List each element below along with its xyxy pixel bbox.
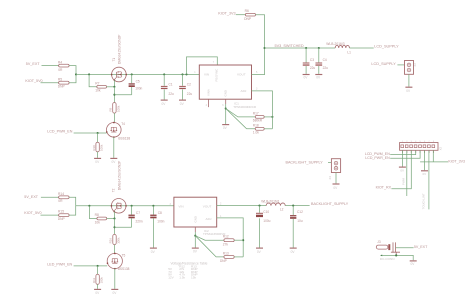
svg-text:C2: C2: [187, 82, 191, 86]
wire to C3: [305, 48, 307, 62]
svg-text:KIOT_RX: KIOT_RX: [376, 185, 392, 189]
svg-text:0V: 0V: [333, 186, 338, 190]
wire header pin7 TOUCH_INT: [428, 150, 430, 209]
svg-text:3: 3: [170, 203, 172, 206]
svg-text:X4: X4: [328, 176, 332, 180]
svg-text:7: 7: [213, 61, 215, 64]
svg-text:J3: J3: [377, 240, 381, 244]
svg-text:L1: L1: [347, 50, 351, 54]
svg-text:BACKLIGHT_SUPPLY: BACKLIGHT_SUPPLY: [286, 160, 324, 164]
svg-text:0V: 0V: [113, 291, 118, 295]
ground header pin1: [399, 166, 406, 168]
wire L1 to LCD_SUPPLY: [349, 47, 373, 49]
capacitor C3: [303, 63, 310, 64]
svg-text:1.0k: 1.0k: [253, 130, 259, 134]
capacitor C10: [256, 213, 263, 214]
ground C3: [303, 74, 310, 76]
resistor R14: [59, 196, 70, 199]
ground X2: [405, 86, 412, 88]
capacitor C2: [179, 86, 186, 87]
svg-text:C10: C10: [263, 210, 269, 214]
svg-text:VOUT: VOUT: [237, 72, 246, 76]
svg-text:100n: 100n: [157, 220, 164, 224]
capacitor C1: [161, 86, 168, 87]
resistor R12: [224, 239, 234, 242]
wire header pin1 to ground: [401, 150, 403, 166]
svg-text:0V: 0V: [112, 160, 117, 164]
wire R15 to merge: [69, 206, 76, 215]
svg-text:BSS138: BSS138: [118, 136, 130, 140]
wire to C5: [131, 74, 133, 83]
wire label to connector X2: [397, 64, 404, 66]
svg-text:LCD_SUPPLY: LCD_SUPPLY: [371, 62, 396, 66]
junction R8 tap: [88, 205, 90, 207]
junction IC2 GND / feedback: [194, 235, 196, 237]
wire feedback diag to R17: [226, 109, 256, 117]
svg-text:0V: 0V: [423, 172, 427, 176]
svg-text:VIN: VIN: [204, 72, 209, 76]
svg-text:4: 4: [206, 104, 208, 107]
ground C1: [161, 99, 168, 101]
op-amp IC2 TPS61165 box: [174, 197, 217, 227]
wire IC1 GND node: [225, 104, 227, 124]
wire feedback diag to R18: [226, 109, 256, 129]
resistor R5: [59, 81, 70, 84]
wire R5 to merge: [69, 74, 76, 82]
wire C7 return: [115, 226, 132, 228]
svg-text:C7: C7: [136, 211, 140, 215]
wire IC2 ADJ feedback: [217, 218, 244, 257]
svg-text:1: 1: [220, 215, 222, 218]
wire C1 to ground: [163, 89, 165, 99]
wire J3 tip to 5V_EXT: [396, 247, 414, 249]
junction IC1 GND / feedback: [225, 107, 227, 109]
svg-text:R15: R15: [58, 210, 64, 214]
resistor R7: [97, 85, 107, 88]
wire header pin5 LCD_PWR_EN: [390, 150, 420, 158]
ground J3: [410, 260, 417, 262]
svg-text:DNP: DNP: [58, 84, 66, 88]
transistor T1: [112, 67, 127, 82]
capacitor C5: [129, 83, 135, 84]
wire feedback diag to R13: [195, 236, 224, 257]
wire X4 pin2 to ground: [335, 173, 337, 184]
junction EN loop: [185, 73, 187, 75]
svg-text:VINA: VINA: [207, 89, 211, 96]
junction C7 top: [131, 205, 133, 207]
svg-text:TOUCH_INT: TOUCH_INT: [422, 193, 426, 209]
svg-text:R7: R7: [95, 81, 99, 85]
junction R17 / ADJ vertical: [271, 116, 273, 118]
wire main 5V rail to IC1 VIN: [76, 73, 199, 75]
svg-text:0V: 0V: [257, 250, 262, 254]
svg-text:ADJ: ADJ: [241, 89, 247, 93]
op-amp IC1 TPS63000 box: [199, 65, 251, 99]
svg-text:6: 6: [222, 104, 224, 107]
junction T2 gate / R8: [113, 217, 115, 219]
wire header pin8 KIOT_3V3: [432, 150, 434, 162]
wire C7 bottom: [131, 218, 133, 227]
svg-text:12V: 12V: [168, 275, 174, 279]
svg-text:27k: 27k: [223, 242, 229, 246]
wire C5 return: [114, 94, 131, 96]
svg-text:T2: T2: [112, 188, 116, 192]
wire main rail to IC2 VIN: [76, 205, 174, 207]
wire IC1 ADJ feedback: [252, 91, 273, 129]
wire to C7: [131, 206, 133, 215]
svg-text:0R: 0R: [58, 199, 63, 203]
ground C8: [150, 247, 157, 249]
svg-text:C4: C4: [323, 58, 327, 62]
svg-text:100k: 100k: [99, 277, 103, 284]
wire R14 to merge: [69, 197, 76, 206]
svg-text:5V_EXT: 5V_EXT: [24, 195, 38, 199]
svg-text:10u: 10u: [297, 219, 303, 223]
wire to C8: [152, 206, 154, 215]
svg-text:0V: 0V: [406, 89, 411, 93]
svg-text:15k: 15k: [191, 275, 196, 279]
svg-text:X2: X2: [413, 63, 417, 67]
inductor L1: [335, 45, 349, 48]
junction gate / C7 return: [113, 226, 115, 228]
wire T4 source to ground: [113, 137, 115, 158]
wire 5V_EXT to R14: [41, 196, 59, 198]
wire down to R11: [97, 266, 99, 274]
svg-text:220n: 220n: [136, 220, 143, 224]
svg-text:0V: 0V: [316, 76, 321, 80]
junction C2 top: [181, 73, 183, 75]
transistor T2: [111, 199, 126, 214]
junction C3: [305, 47, 307, 49]
wire to C1: [163, 74, 165, 85]
junction rail / VOUT: [263, 47, 265, 49]
junction C1 top: [163, 73, 165, 75]
svg-text:100n: 100n: [135, 87, 142, 91]
wire down to R7: [89, 74, 97, 86]
junction C10: [258, 205, 260, 207]
svg-text:0V: 0V: [162, 102, 167, 106]
ground C2: [179, 99, 186, 101]
wire IC1 VOUT up to switched rail: [252, 48, 265, 75]
svg-text:KIOT_3V3: KIOT_3V3: [218, 12, 235, 16]
junction R10 tap: [97, 132, 99, 134]
transistor T5: [107, 253, 122, 268]
capacitor C8: [150, 215, 156, 216]
svg-text:1: 1: [194, 71, 196, 74]
svg-text:C8: C8: [158, 211, 162, 215]
resistor R4: [59, 64, 70, 67]
svg-text:0V: 0V: [95, 160, 100, 164]
wire X2 pin2 to ground: [408, 74, 410, 86]
ground R10: [94, 157, 101, 159]
wire to C4: [318, 48, 320, 62]
resistor R18: [255, 127, 264, 130]
ground header pin6: [421, 170, 428, 172]
svg-text:0V: 0V: [193, 250, 198, 254]
svg-text:LCD_PWR_EN: LCD_PWR_EN: [47, 130, 73, 134]
resistor R6: [245, 13, 255, 16]
svg-text:5V3_SWITCHED: 5V3_SWITCHED: [275, 44, 304, 48]
svg-text:DMG3415U/SON2P: DMG3415U/SON2P: [117, 34, 121, 64]
wire to C2: [182, 74, 184, 85]
svg-text:0V: 0V: [291, 250, 296, 254]
wire 5V_EXT to R4: [42, 65, 59, 67]
svg-text:DC-CONN: DC-CONN: [380, 257, 395, 261]
svg-text:L2: L2: [280, 207, 284, 211]
svg-text:R9: R9: [109, 107, 113, 111]
svg-text:BACKLIGHT_SUPPLY: BACKLIGHT_SUPPLY: [311, 202, 349, 206]
svg-text:BSS138: BSS138: [118, 267, 130, 271]
wire C8 to ground: [152, 218, 154, 247]
wire T1 gate: [113, 80, 115, 87]
svg-text:100k: 100k: [116, 105, 120, 112]
svg-text:KIOT_5V0: KIOT_5V0: [25, 79, 42, 83]
svg-text:KIOT_5V0: KIOT_5V0: [24, 211, 41, 215]
svg-text:C5: C5: [136, 80, 140, 84]
wire R8 to gate node: [107, 218, 115, 220]
wire R16 to T5 drain: [114, 245, 116, 254]
resistor R9: [113, 103, 116, 114]
svg-text:VOUT: VOUT: [203, 204, 212, 208]
wire R11 to ground: [97, 284, 99, 289]
resistor R16: [113, 234, 116, 244]
svg-text:DNP: DNP: [220, 259, 227, 263]
pin GND stub IC2: [194, 227, 196, 232]
wire R6 down to rail: [256, 15, 265, 48]
ground T5: [111, 288, 118, 290]
wire C4 to ground: [318, 66, 320, 74]
svg-text:T1: T1: [112, 58, 116, 62]
svg-text:3: 3: [256, 87, 258, 90]
header pin stubs: [401, 150, 403, 153]
wire R17 to vertical: [264, 116, 272, 118]
transistor T4: [107, 123, 122, 138]
resistor R11: [96, 274, 99, 284]
wire header pin2 PWM: [406, 150, 408, 196]
wire EN loop to IC1 top pin: [187, 57, 218, 75]
svg-text:VIN: VIN: [178, 204, 183, 208]
wire LED_PWR_EN to T5 gate: [74, 265, 108, 267]
svg-text:R4: R4: [58, 60, 62, 64]
svg-text:22u: 22u: [187, 92, 193, 96]
wire R7 to gate node: [107, 86, 115, 88]
svg-text:Voltage/Resistance Table: Voltage/Resistance Table: [171, 261, 208, 265]
svg-text:R14: R14: [58, 192, 64, 196]
svg-text:0V: 0V: [400, 168, 404, 172]
svg-text:WLB-2016/3: WLB-2016/3: [326, 42, 344, 46]
svg-text:0V: 0V: [180, 102, 185, 106]
connector X2 LCD_SUPPLY: [405, 61, 414, 75]
wire header pin4 LCD_PWM_EN: [390, 150, 416, 154]
svg-text:GND: GND: [224, 90, 228, 96]
capacitor C12: [290, 215, 296, 216]
junction R11 tap: [97, 265, 99, 267]
junction C4: [318, 47, 320, 49]
svg-text:R8: R8: [95, 213, 99, 217]
wire R18 to vertical: [264, 128, 272, 130]
wire LCD_PWR_EN to T4 gate: [74, 132, 107, 134]
connector X4 BACKLIGHT_SUPPLY: [331, 159, 340, 173]
capacitor C7: [128, 215, 134, 216]
ground IC2: [192, 247, 199, 249]
junction J3 sleeve: [395, 254, 397, 256]
svg-text:5V_EXT: 5V_EXT: [26, 62, 40, 66]
svg-text:C12: C12: [297, 210, 303, 214]
wire to C12: [292, 206, 294, 215]
wire feedback diag to R12: [195, 236, 224, 241]
wire header pin6 to ground: [424, 150, 426, 170]
inductor L2: [266, 203, 285, 206]
wire C12 to ground: [292, 219, 294, 248]
svg-text:GND: GND: [194, 216, 198, 222]
wire R13 to vertical: [234, 256, 243, 258]
wire down to R10: [97, 133, 99, 142]
svg-text:R10: R10: [92, 145, 96, 151]
wire J3 sleeve to ground: [381, 255, 414, 260]
wire R4 to merge: [69, 66, 76, 75]
svg-text:WLB-2016/1: WLB-2016/1: [261, 200, 279, 204]
wire header pin3 KIOT_RX: [391, 150, 411, 188]
svg-text:0V: 0V: [95, 291, 100, 295]
svg-text:R5: R5: [58, 77, 62, 81]
svg-text:0V: 0V: [151, 250, 156, 254]
wire IC2 VOUT to L2: [217, 205, 267, 207]
svg-text:10k: 10k: [95, 220, 101, 224]
svg-text:0V: 0V: [223, 126, 228, 130]
wire KIOT_3V3 to R6: [236, 14, 246, 16]
svg-text:0V: 0V: [304, 76, 309, 80]
svg-text:0R: 0R: [58, 68, 63, 72]
resistor R13: [224, 255, 234, 258]
capacitor C4: [315, 63, 322, 64]
ground IC1: [222, 124, 229, 126]
svg-text:22u: 22u: [323, 66, 329, 70]
wire KIOT_5V0 to R5: [41, 82, 59, 84]
svg-text:DNP: DNP: [58, 217, 66, 221]
connector X3 LCD header: [400, 143, 438, 151]
wire gate down: [113, 87, 115, 103]
svg-text:100u: 100u: [263, 219, 270, 223]
wire C3 to ground: [305, 66, 307, 74]
svg-text:R16: R16: [109, 238, 113, 244]
junction gate / C5 return: [113, 94, 115, 96]
resistor R15: [59, 214, 70, 217]
svg-text:DNP: DNP: [244, 17, 252, 21]
svg-text:100k: 100k: [116, 237, 120, 244]
wire R12 to vertical: [234, 239, 243, 241]
svg-text:10k: 10k: [95, 89, 101, 93]
junction C12: [292, 205, 294, 207]
resistor R10: [96, 142, 99, 152]
junction R12 / ADJ vertical: [242, 239, 244, 241]
svg-text:100k: 100k: [99, 144, 103, 151]
svg-text:R13: R13: [223, 251, 229, 255]
ground T4: [110, 157, 117, 159]
junction C8 top: [152, 205, 154, 207]
wire down to R8: [89, 206, 97, 219]
svg-text:T5: T5: [122, 253, 126, 257]
resistor R8: [97, 217, 107, 220]
svg-text:LCD_SUPPLY: LCD_SUPPLY: [374, 45, 399, 49]
svg-text:22u: 22u: [169, 92, 175, 96]
svg-text:X3: X3: [439, 146, 443, 150]
svg-text:LCD_PWR_EN: LCD_PWR_EN: [365, 156, 390, 160]
wire R10 to ground: [97, 152, 99, 158]
wire T2 gate: [114, 212, 116, 219]
svg-text:PWM: PWM: [401, 177, 405, 185]
wire L2 to BACKLIGHT_SUPPLY: [285, 205, 309, 207]
svg-text:R18: R18: [253, 123, 259, 127]
wire C5 bottom: [131, 87, 133, 95]
ground R11: [94, 288, 101, 290]
svg-text:R6: R6: [245, 9, 249, 13]
ground C10: [256, 247, 263, 249]
svg-text:LED_PWR_EN: LED_PWR_EN: [47, 263, 72, 267]
wire C10 to ground: [259, 218, 261, 247]
svg-text:TPS63000DRCR: TPS63000DRCR: [233, 105, 257, 109]
junction T1 gate / R7: [113, 86, 115, 88]
ground C4: [315, 74, 322, 76]
junction C5 top: [131, 73, 133, 75]
svg-text:5: 5: [256, 71, 258, 74]
wire 5V3_SWITCHED rail: [265, 47, 336, 49]
wire KIOT_5V0 to R15: [41, 214, 59, 216]
svg-text:T4: T4: [121, 122, 125, 126]
pin GND stub IC1: [225, 99, 227, 104]
ground C12: [290, 247, 297, 249]
wire R9 to T4 drain: [113, 113, 115, 122]
svg-text:KIOT_3V3: KIOT_3V3: [448, 160, 465, 164]
svg-text:22u: 22u: [310, 66, 316, 70]
svg-text:ADJ: ADJ: [206, 217, 212, 221]
wire gate down: [114, 219, 116, 235]
wire IC2 GND node: [194, 232, 196, 248]
junction merge top inputs: [75, 73, 77, 75]
svg-text:DMG3415U/SON2P: DMG3415U/SON2P: [117, 160, 121, 190]
svg-text:C1: C1: [169, 82, 173, 86]
ground X4: [333, 183, 340, 185]
svg-text:R12: R12: [223, 235, 229, 239]
wire label to connector X4: [328, 161, 331, 163]
svg-text:680kR: 680kR: [253, 119, 263, 123]
wire T5 source to ground: [114, 269, 116, 289]
svg-text:0V: 0V: [411, 262, 416, 266]
svg-text:C3: C3: [310, 58, 314, 62]
svg-text:1.5k: 1.5k: [179, 275, 185, 279]
svg-text:PS/SYNC: PS/SYNC: [215, 69, 219, 82]
resistor R17: [255, 116, 264, 119]
junction R7 tap: [88, 73, 90, 75]
wire to C10: [259, 206, 261, 213]
wire C2 to ground: [182, 89, 184, 99]
svg-text:R11: R11: [92, 278, 96, 283]
svg-text:R17: R17: [253, 112, 259, 116]
pin VINA stub IC1: [208, 99, 210, 107]
svg-text:5V_EXT: 5V_EXT: [414, 245, 428, 249]
